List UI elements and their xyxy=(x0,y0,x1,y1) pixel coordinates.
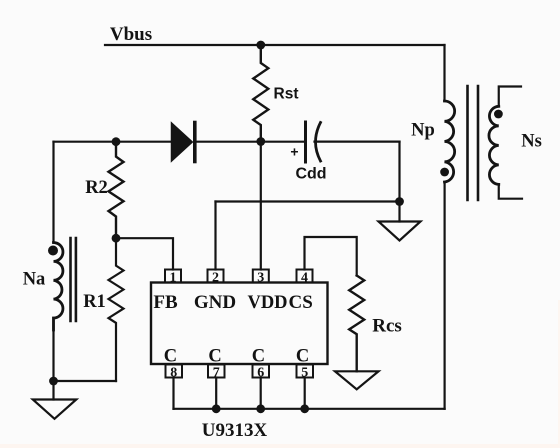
pin 5 xyxy=(297,365,314,381)
junction dot ground node xyxy=(395,197,404,206)
wire pin8 to bottom rail xyxy=(172,378,174,409)
diode D1 xyxy=(172,123,195,162)
pin 7 xyxy=(208,365,225,381)
junction dot Na ground node xyxy=(49,377,58,386)
wire Ns top lead xyxy=(499,87,521,107)
svg-text:Ns: Ns xyxy=(521,132,542,152)
svg-text:VDD: VDD xyxy=(247,293,287,313)
phase dot Na xyxy=(48,246,58,256)
svg-text:Vbus: Vbus xyxy=(110,24,152,45)
wire FB node to pin1 xyxy=(116,238,173,269)
ground (Rcs) xyxy=(335,371,379,389)
junction dot pin7 xyxy=(212,404,221,413)
wire anode row left xyxy=(54,141,173,143)
wire pin2 vertical xyxy=(214,202,216,270)
resistor R2 xyxy=(109,142,124,239)
junction dot pin5 xyxy=(300,404,309,413)
svg-text:4: 4 xyxy=(301,271,308,286)
pin 3 (VDD) xyxy=(253,270,269,286)
pin 8 xyxy=(166,365,183,381)
junction dot diode row / Rst xyxy=(256,137,265,146)
wire ground stub (Cdd) xyxy=(398,202,400,222)
pin 1 (FB) xyxy=(165,270,181,286)
wire GND pin rail xyxy=(216,200,400,202)
wire Cdd right lead xyxy=(315,141,400,143)
core main transformer xyxy=(468,86,479,200)
svg-text:3: 3 xyxy=(257,271,264,286)
svg-text:Rcs: Rcs xyxy=(372,316,402,337)
wire Na bottom lead xyxy=(52,318,54,381)
wire left vertical to Na xyxy=(52,142,54,243)
wire R1 bottom to Na node xyxy=(54,380,117,382)
wire Np bottom to rail xyxy=(444,182,446,409)
wire pin3 vertical xyxy=(260,142,262,270)
wire Ns bottom lead xyxy=(499,184,522,198)
junction dot diode row / R2 xyxy=(112,137,121,146)
pin 6 xyxy=(253,365,270,381)
svg-text:2: 2 xyxy=(212,271,219,286)
wire Vbus rail xyxy=(105,44,445,46)
svg-text:FB: FB xyxy=(153,292,178,313)
phase dot Ns xyxy=(494,110,503,119)
pin 2 (GND) xyxy=(208,270,224,286)
wire ground stub (Na) xyxy=(52,381,54,400)
wire pin5 to rail xyxy=(304,378,306,409)
svg-text:Rst: Rst xyxy=(274,86,299,103)
svg-text:U9313X: U9313X xyxy=(202,420,268,441)
junction dot Vbus/Rst xyxy=(256,41,265,50)
svg-text:1: 1 xyxy=(170,271,177,286)
svg-text:+: + xyxy=(290,144,298,160)
capacitor Cdd xyxy=(306,122,321,162)
IC U9313X body xyxy=(151,283,328,365)
winding Np xyxy=(445,101,455,182)
ground (Na) xyxy=(33,400,77,419)
wire pin6 to rail xyxy=(260,378,262,409)
wire anode row right xyxy=(195,141,305,143)
svg-text:R1: R1 xyxy=(83,292,106,312)
svg-text:Np: Np xyxy=(411,121,435,141)
core Na xyxy=(71,238,76,321)
junction dot pin6 xyxy=(256,404,265,413)
wire Cdd down to ground node xyxy=(398,142,400,202)
resistor R1 xyxy=(109,238,124,381)
svg-text:R2: R2 xyxy=(85,178,108,198)
ground (Cdd) xyxy=(379,222,421,241)
svg-text:CS: CS xyxy=(289,292,313,313)
resistor Rcs xyxy=(349,276,364,372)
winding Ns xyxy=(489,106,499,184)
junction dot FB node xyxy=(112,234,121,243)
svg-text:Cdd: Cdd xyxy=(295,166,326,183)
winding Na xyxy=(54,242,63,330)
wire Vbus down to Np xyxy=(443,45,445,101)
bottom rail xyxy=(174,408,445,410)
svg-text:GND: GND xyxy=(194,292,236,313)
resistor Rst xyxy=(253,45,268,142)
svg-text:Na: Na xyxy=(23,270,46,290)
wire pin4 to Rcs xyxy=(305,237,357,276)
phase dot Np xyxy=(440,168,449,177)
wire pin7 to rail xyxy=(215,378,217,409)
pin 4 (CS) xyxy=(297,270,313,286)
